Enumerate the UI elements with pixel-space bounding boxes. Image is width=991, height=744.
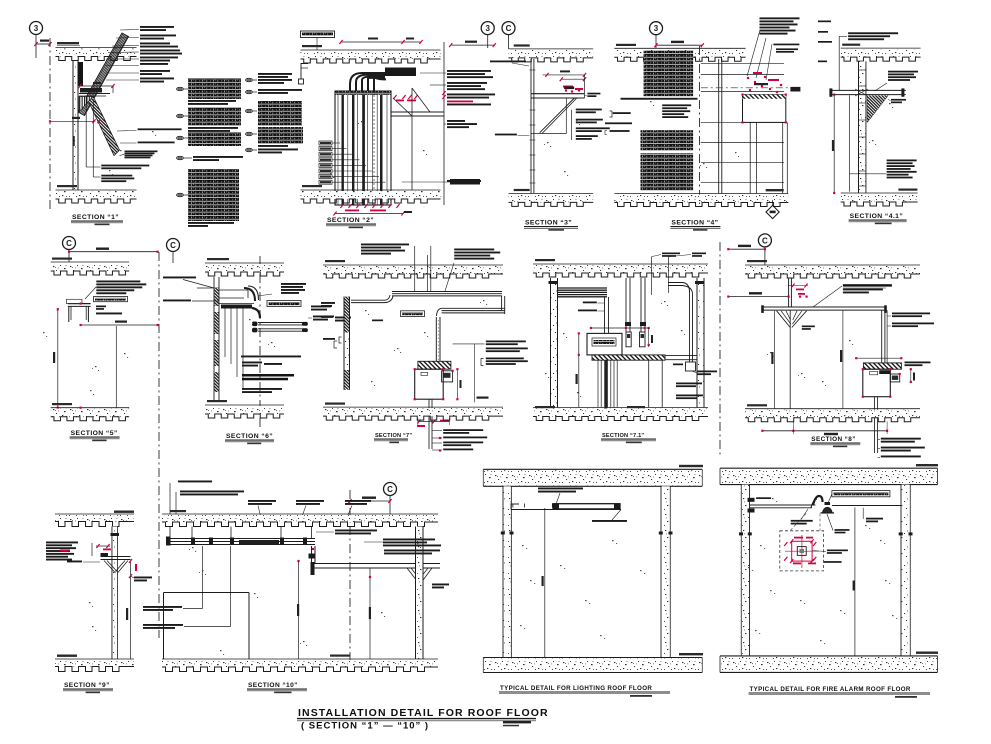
section 7 below notes	[432, 429, 487, 451]
section 10 mid-right notes	[316, 530, 441, 555]
section 2 bottom slab	[301, 185, 441, 203]
section 2 title	[326, 217, 376, 228]
svg-text:C: C	[170, 241, 176, 250]
section 3 anc pin note	[585, 93, 601, 97]
section 7.1 top slab	[533, 259, 708, 277]
section 3 right leader notes	[572, 109, 610, 140]
lighting fixture	[511, 504, 621, 510]
section 8 top slab	[745, 260, 920, 278]
section 7 red dim below box	[417, 418, 450, 427]
svg-text:3: 3	[654, 24, 659, 33]
note B2	[258, 89, 302, 94]
section 1 bracket dimension	[78, 82, 114, 88]
section 7.1 right instrument dim	[648, 328, 653, 347]
svg-text:SECTION “9”: SECTION “9”	[64, 682, 110, 689]
fire panel interior marks	[748, 498, 897, 644]
section 3 top slab	[509, 44, 594, 62]
section 2 bottom dimension	[333, 211, 412, 216]
section 7.1 title	[601, 433, 656, 443]
section 7 riser	[436, 317, 440, 361]
section 5 top slab	[51, 258, 130, 276]
section 9 wall joint	[111, 533, 120, 536]
section 5 small dims	[96, 306, 122, 315]
section 7.1 instrument box	[587, 333, 622, 355]
section 9 bracket dim	[92, 543, 111, 556]
section 9 bracket	[101, 553, 131, 573]
section 8 device right dim	[905, 362, 931, 384]
section 1 lower leader notes	[86, 165, 149, 183]
section 6 frame	[219, 290, 248, 298]
svg-text:C: C	[506, 24, 512, 33]
section 4 title	[670, 220, 720, 231]
notes column A leaders	[184, 89, 192, 195]
section 2 right leader notes	[420, 70, 495, 182]
note block A3	[188, 132, 241, 146]
section 4 diamond datum	[766, 200, 779, 219]
section 8 hanger dims	[789, 284, 808, 298]
section 7.1 instrument dim	[590, 327, 650, 329]
section 8 beam	[761, 305, 887, 313]
section 7.1 hatched shelf	[592, 355, 697, 360]
section 10 centerline	[349, 490, 351, 662]
section 4.1 bear note	[888, 99, 906, 103]
svg-text:SECTION “2”: SECTION “2”	[327, 217, 374, 224]
centerline (section 1)	[49, 38, 51, 212]
section 4.1 neoprene note	[875, 71, 918, 91]
section 5 bottom slab	[51, 403, 130, 421]
section 5 channel bracket	[66, 299, 90, 322]
section 4.1 bottom slab	[841, 189, 918, 207]
section 7 bottom slab	[323, 403, 503, 421]
section 4 dark tag	[790, 87, 800, 92]
svg-text:SECTION “1”: SECTION “1”	[72, 214, 119, 221]
section 4 left margin notes	[605, 111, 632, 135]
section 10 right wall	[416, 527, 424, 660]
section 6 bottom slab	[205, 400, 284, 418]
section 8 anc pin note	[802, 326, 815, 330]
svg-text:TYPICAL DETAIL FOR LIGHTING: TYPICAL DETAIL FOR LIGHTING ROOF FLOOR	[500, 685, 652, 692]
section 3 arm dims	[543, 70, 587, 81]
svg-text:SECTION “4”: SECTION “4”	[671, 220, 718, 227]
section 10 room outline	[164, 593, 250, 660]
svg-text:SECTION “10”: SECTION “10”	[248, 682, 298, 689]
dimension at datum 3	[34, 40, 51, 47]
svg-text:SECTION “4.1”: SECTION “4.1”	[850, 213, 904, 220]
note A4	[193, 156, 243, 161]
section 1 fixing plate	[79, 62, 84, 86]
section 8 top dimension	[727, 245, 766, 251]
section 6 pipe pair	[252, 322, 308, 333]
section 10 top dimension	[348, 497, 391, 504]
section 8 stem below box	[875, 397, 878, 453]
lighting panel left column	[503, 486, 511, 657]
fire panel left column	[741, 485, 749, 656]
section 9 wall	[112, 527, 118, 660]
section 2 top slab	[301, 45, 441, 63]
section 5 left dim	[53, 308, 59, 409]
fire hold steel note	[863, 508, 883, 523]
fire panel bottom slab	[720, 652, 938, 673]
section 2 conduit elbow bundle	[350, 68, 416, 92]
section 3 bracket arm	[531, 75, 585, 134]
section 5 title	[70, 430, 120, 441]
section 3 red fitting cluster	[563, 86, 583, 93]
note B1	[258, 73, 292, 84]
section 8 dim rods to floor	[771, 310, 843, 409]
section 4 red fixing cluster	[747, 72, 782, 93]
section 10 top slab	[162, 510, 438, 527]
lighting panel title	[499, 685, 670, 697]
section 6 elbow upper	[244, 286, 259, 301]
section 7.1 leaders above slab	[651, 253, 706, 296]
section 7.1 riser to box	[605, 297, 609, 333]
section 8 bottom slab	[745, 404, 920, 422]
datum bubble C (section 5)	[63, 237, 76, 263]
section 7 title	[374, 433, 412, 443]
section 2 right boundary line	[442, 42, 445, 205]
fire alarm conduit right	[832, 505, 901, 507]
fire panel interior line	[853, 508, 855, 656]
datum bubble C (section 10)	[384, 483, 397, 515]
section 7 left outside notes	[321, 302, 344, 343]
svg-text:SECTION “7.1”: SECTION “7.1”	[602, 433, 644, 439]
section 9 left note block	[46, 542, 100, 563]
section 8 mid dimension	[727, 292, 790, 298]
svg-text:C: C	[66, 239, 72, 248]
section 6 top slab	[205, 258, 284, 276]
section 4 top slab	[614, 44, 745, 62]
section 7.1 right lower notes	[676, 371, 717, 400]
lighting fixture notes	[538, 488, 627, 522]
section 7.1 right column	[695, 278, 704, 411]
section 8 title	[810, 436, 860, 447]
datum bubble C (section 8)	[758, 234, 771, 265]
lighting panel top slab	[483, 465, 703, 487]
section 4 vertical rails	[701, 59, 784, 194]
datum bubble 3 (section 1)	[30, 22, 43, 59]
section 6 drop lines	[225, 309, 243, 391]
fire mounting red box	[784, 535, 819, 568]
section 4 shaft verticals	[750, 122, 787, 193]
section 5 top dimension	[68, 248, 159, 253]
section 7.1 left riser notes	[578, 302, 604, 312]
section 1 bracket	[79, 86, 120, 156]
section 8 duct	[882, 310, 887, 363]
conduit riser tag	[402, 179, 480, 185]
section 4 note block above slab	[747, 17, 799, 80]
fire panel column joints	[739, 532, 913, 535]
section 7 right leader notes	[453, 341, 528, 366]
lighting panel bottom slab	[483, 653, 703, 673]
section 4.1 channel	[829, 88, 905, 96]
section 7.1 bottom slab	[533, 406, 708, 421]
section 7.1 right elbow pipe	[668, 283, 693, 363]
section 4 bottom slab	[614, 189, 788, 207]
fire junction box note	[791, 509, 813, 525]
lighting panel interior marks	[520, 540, 645, 639]
section 2 label box	[301, 31, 335, 50]
section 2 bank red dims	[393, 95, 417, 101]
fire detail dashed box	[780, 514, 824, 571]
main title	[297, 707, 549, 721]
section 6 title	[225, 433, 274, 444]
section 3 erdawa note	[495, 134, 530, 136]
datum bubble 3 (section 4)	[650, 22, 663, 48]
section 9 bottom slab	[55, 655, 134, 672]
section 4 wide note row	[621, 98, 698, 100]
fire panel top slab	[720, 464, 938, 485]
section 3 left note	[490, 61, 529, 67]
section 5 hanger line	[115, 326, 117, 408]
section 1 wall	[73, 61, 78, 190]
section 8 device cap dim	[855, 357, 902, 359]
section 4.1 title	[849, 213, 907, 224]
section 6 wall	[214, 277, 219, 402]
section 4 note block C	[641, 153, 694, 190]
section 1 top slab	[56, 42, 137, 61]
svg-text:SECTION “8”: SECTION “8”	[811, 436, 856, 443]
section 10 dim verticals	[297, 561, 371, 659]
note block B3	[258, 101, 302, 126]
section 3 bottom slab	[509, 189, 594, 207]
section 4 centerline	[699, 46, 701, 204]
note block A1	[188, 78, 241, 105]
section 4 dashed line through cluster	[701, 87, 794, 89]
section 7 top slab	[323, 260, 503, 278]
section 1 cable leader notes	[106, 26, 182, 83]
section 1 leader verticals	[86, 96, 93, 177]
section 10 bracket at wall	[407, 568, 449, 588]
svg-text:C: C	[762, 236, 768, 245]
section 6 centerline	[259, 256, 261, 430]
fire alarm conduit left	[748, 497, 816, 512]
section 4.1 top slab	[841, 44, 921, 62]
section 1 bracket notes	[117, 128, 182, 158]
section 7.1 left column	[549, 278, 558, 411]
section 10 title	[247, 682, 307, 693]
section 7 notes above right	[445, 249, 500, 292]
svg-text:( SECTION “1” — “10” ): ( SECTION “1” — “10” )	[301, 721, 429, 732]
section 6 left note	[163, 300, 219, 302]
fire alarm detector	[821, 502, 835, 513]
section 4.1 wall	[859, 61, 866, 193]
svg-text:3: 3	[485, 24, 490, 33]
section 4.1 lower note block	[850, 160, 917, 179]
svg-text:TYPICAL DETAIL FOR FIRE AL: TYPICAL DETAIL FOR FIRE ALARM ROOF FLOOR	[750, 686, 911, 693]
section 2 left drop wire	[299, 64, 309, 85]
notes column B leaders	[253, 80, 257, 150]
section 2 shelf bracket	[391, 88, 444, 190]
section 7 notes above left	[361, 244, 431, 292]
fire pvd adap note	[827, 514, 850, 533]
svg-text:SECTION “7”: SECTION “7”	[375, 433, 412, 439]
section 4.1 brace	[867, 95, 888, 122]
fire panel title	[749, 686, 931, 698]
section 7.1 conduit drop bundle	[598, 360, 617, 411]
section 10 hangers	[170, 527, 312, 540]
section 6 junction band	[219, 304, 254, 309]
section 8 duct notes	[887, 313, 934, 328]
section 10 notes above slab	[170, 481, 371, 523]
section 3 title	[524, 220, 578, 231]
section 1 bottom slab	[56, 185, 137, 203]
section 7.1 shelf legs	[649, 360, 663, 407]
datum bubble C (section 3)	[502, 22, 515, 49]
section 5 notes right of bracket	[85, 281, 146, 302]
section 4.1 note above	[839, 32, 898, 91]
scattered interior marks	[43, 101, 893, 655]
section 1 wall dim label	[73, 136, 75, 146]
lighting panel interior line	[542, 508, 545, 658]
notes column B bullets	[246, 78, 253, 151]
note block B4	[258, 127, 303, 147]
section 6 note above wall	[163, 277, 219, 289]
section 7 upper pipe bundle	[392, 292, 505, 315]
note B5	[258, 149, 298, 154]
section 8 bracket note	[813, 284, 892, 307]
fire alarm flex loop	[811, 496, 823, 508]
section 10 elbow drop	[297, 546, 315, 564]
section 4 right small notes	[773, 44, 799, 53]
section 10 bottom slab	[162, 655, 438, 672]
svg-text:INSTALLATION DETAIL FOR ROO: INSTALLATION DETAIL FOR ROOF FLOOR	[298, 707, 549, 719]
section 8 hanger	[789, 278, 792, 307]
section 7 return pipe bundle	[437, 308, 505, 316]
section 7 elbow up	[385, 295, 393, 303]
lighting panel right column	[661, 486, 670, 657]
section 8 brace triangle	[777, 311, 807, 328]
section 7 box right dim	[456, 368, 461, 400]
lighting panel column joints	[501, 532, 673, 535]
section 1 wall dim	[49, 117, 101, 124]
section 4.1 inner vertical	[849, 95, 851, 191]
svg-text:SECTION “5”: SECTION “5”	[71, 430, 118, 437]
section 4 shaft box	[741, 94, 787, 124]
section 2 bottom red dims	[340, 204, 399, 211]
section 6 lower notes	[241, 356, 301, 394]
section 2 top dimension	[339, 38, 422, 45]
svg-text:3: 3	[34, 24, 39, 33]
section 4.1 left dim	[832, 95, 835, 194]
section 9 title	[63, 682, 113, 693]
section 10 leader note 2	[143, 546, 231, 629]
section 5 mid dimension	[80, 321, 159, 327]
section 3 hanger rod	[530, 59, 536, 193]
section 4 note block B	[641, 130, 694, 150]
note block A2	[188, 107, 241, 132]
section 7 pull box	[414, 361, 454, 400]
notes column A bullets	[177, 87, 184, 196]
svg-text:SECTION “3”: SECTION “3”	[525, 220, 572, 227]
section 7.1 pipe bundle horizontal	[558, 288, 608, 297]
section 7.1 left dim	[576, 332, 580, 407]
section 10 conduit run	[166, 537, 315, 546]
section 9 top slab	[55, 511, 134, 527]
section 6 boxed tag	[267, 301, 301, 307]
fire box notes right	[812, 550, 848, 563]
section 5 cut line	[158, 252, 160, 638]
fire panel right column	[901, 485, 910, 656]
section 8 below notes	[878, 438, 925, 458]
section 10 beam	[311, 562, 441, 575]
datum bubble C (section 6)	[167, 239, 180, 264]
section 7.1 cyld box	[673, 362, 696, 371]
section 9 anchor note	[131, 576, 153, 581]
section 7.1 instruments	[626, 332, 645, 347]
section 10 leader note 1	[143, 546, 203, 611]
section 1 cable bundle (diagonal)	[78, 33, 129, 116]
section 7 4,50 dim	[475, 344, 489, 403]
fire alarm detector tag	[828, 491, 890, 503]
main title line 2	[301, 721, 531, 732]
section 4 mid labels	[662, 104, 691, 118]
section 7 wall	[344, 297, 350, 390]
section 1 title	[71, 214, 123, 225]
section 8 bottom dimension	[761, 421, 888, 435]
section 2 label stack	[319, 141, 386, 184]
datum bubble 3 (section 3)	[481, 22, 494, 48]
section 8 device box	[862, 363, 902, 398]
section 4 right margin bits	[818, 21, 832, 63]
section 6 bracket note upper right	[258, 283, 306, 296]
section 9 right dim	[126, 559, 137, 659]
section 6 right notes	[308, 306, 351, 322]
section 6 group bracket	[334, 341, 337, 348]
section 6 elbow lower	[252, 308, 260, 318]
section 8 centerline	[719, 242, 721, 455]
section 2 conduit riser bank	[335, 91, 391, 205]
svg-text:C: C	[387, 485, 393, 494]
note block A5	[188, 169, 239, 227]
section 4 top dimension	[654, 41, 704, 48]
svg-text:SECTION “6”: SECTION “6”	[226, 433, 273, 440]
section 3 top dimension	[449, 41, 496, 48]
section 7 stem below box	[429, 399, 432, 449]
section 7.1 vertical pipe pairs	[625, 278, 646, 332]
section 7 lower feed pipe	[351, 300, 385, 302]
section 7 timber tag	[372, 311, 425, 321]
section 4 note block A	[644, 51, 694, 96]
